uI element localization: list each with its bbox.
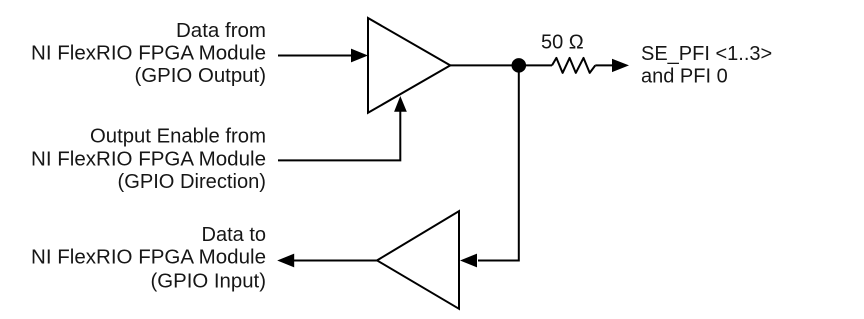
buffer U1: tri-state output buffer (points right) <box>368 18 450 113</box>
wire: node to resistor <box>519 64 552 66</box>
svg-text:SE_PFI <1..3>: SE_PFI <1..3> <box>641 43 772 65</box>
arrowhead: enable into buffer U1 <box>394 96 407 112</box>
node: junction dot <box>512 58 527 73</box>
label: Data from NI FlexRIO FPGA Module (GPIO Output) <box>31 20 266 87</box>
svg-text:50 Ω: 50 Ω <box>541 31 584 53</box>
svg-text:(GPIO Direction): (GPIO Direction) <box>118 171 267 193</box>
svg-text:Output Enable from: Output Enable from <box>90 125 266 147</box>
svg-text:(GPIO Input): (GPIO Input) <box>151 271 267 293</box>
wire: resistor to connector pin <box>595 64 613 66</box>
svg-text:and PFI 0: and PFI 0 <box>641 65 728 87</box>
wire: output enable run right then up to buffer enable pin <box>278 111 400 160</box>
svg-text:(GPIO Output): (GPIO Output) <box>135 65 267 87</box>
arrowhead: into input buffer <box>460 254 477 268</box>
wire: input buffer output to GPIO input text <box>294 260 377 262</box>
resistor R1: 50 ohm series resistor <box>552 58 595 73</box>
label: SE_PFI <1..3> and PFI 0 <box>641 43 772 87</box>
svg-text:NI FlexRIO FPGA Module: NI FlexRIO FPGA Module <box>31 43 266 65</box>
buffer U2: input buffer (points left) <box>377 211 459 309</box>
label: Data to NI FlexRIO FPGA Module (GPIO Input) <box>31 224 266 293</box>
wire: node down to input buffer <box>478 65 519 260</box>
arrowhead: into output buffer input <box>351 49 368 63</box>
svg-text:Data from: Data from <box>176 20 266 42</box>
wire: buffer output to node <box>450 64 519 66</box>
arrowhead: to SE_PFI connector <box>612 59 629 72</box>
wire: GPIO output data into output buffer <box>278 55 353 57</box>
svg-text:NI FlexRIO FPGA Module: NI FlexRIO FPGA Module <box>31 246 266 268</box>
label: Output Enable from NI FlexRIO FPGA Module (GPIO Direction) <box>31 125 266 193</box>
arrowhead: to GPIO input label <box>277 254 294 268</box>
svg-text:Data to: Data to <box>202 224 266 246</box>
svg-text:NI FlexRIO FPGA Module: NI FlexRIO FPGA Module <box>31 149 266 171</box>
